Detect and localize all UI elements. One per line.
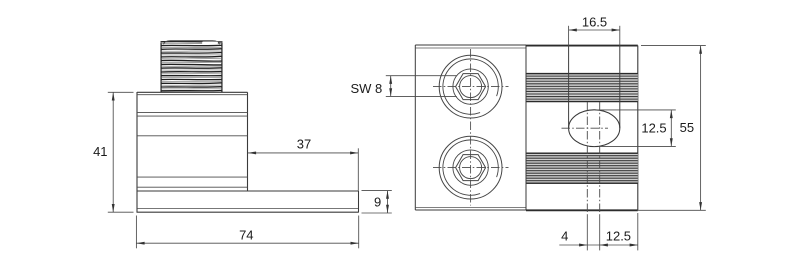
centerline vertical through both holes	[470, 49, 472, 206]
svg-text:16.5: 16.5	[582, 14, 607, 29]
centerline/edge vertical pair (4 mm apart)	[586, 102, 588, 215]
upper screw hole with SW8 hex socket	[439, 55, 502, 118]
svg-text:4: 4	[561, 229, 568, 244]
dimension 55 (overall height, right)	[641, 45, 706, 47]
knurl hatch band bottom	[527, 153, 638, 183]
knurl hatch band top	[527, 74, 638, 102]
svg-text:9: 9	[374, 195, 381, 210]
knurled middle section, right view	[526, 45, 638, 47]
svg-text:55: 55	[680, 120, 694, 135]
lower screw hole with hex socket	[439, 136, 502, 199]
body horizontal feature lines	[137, 94, 248, 96]
threaded stud M-thread on top of body, left view	[161, 41, 223, 92]
clamp screw hole (ellipse), right view	[569, 110, 620, 147]
dimension 12.5 (hole dia, right)	[596, 109, 676, 111]
base plate, left view	[137, 190, 359, 192]
centerline horizontal, hole at y=86.6	[433, 86, 509, 88]
centerline horizontal, hole at y=167.6	[433, 167, 509, 169]
svg-text:12.5: 12.5	[606, 228, 631, 243]
centerline horizontal through hole	[562, 127, 609, 129]
svg-text:74: 74	[239, 227, 253, 242]
dimension 41 (height), left view	[108, 91, 134, 93]
body block outline, left view	[136, 92, 138, 212]
svg-text:SW 8: SW 8	[351, 81, 383, 96]
counterbore silhouette edges	[568, 46, 570, 129]
dimension 9 (base thickness), left view	[362, 190, 392, 192]
svg-text:37: 37	[297, 136, 311, 151]
dimension 74 (overall length), left view	[135, 216, 137, 249]
dimension 37, left view	[248, 152, 358, 154]
dimension 16.5 (top)	[568, 26, 570, 46]
clamp body left section, right view	[414, 45, 416, 210]
svg-text:12.5: 12.5	[641, 120, 666, 135]
dimensions 4 and 12.5 (bottom)	[637, 213, 639, 250]
dimension SW 8	[386, 75, 457, 77]
svg-text:41: 41	[93, 144, 107, 159]
